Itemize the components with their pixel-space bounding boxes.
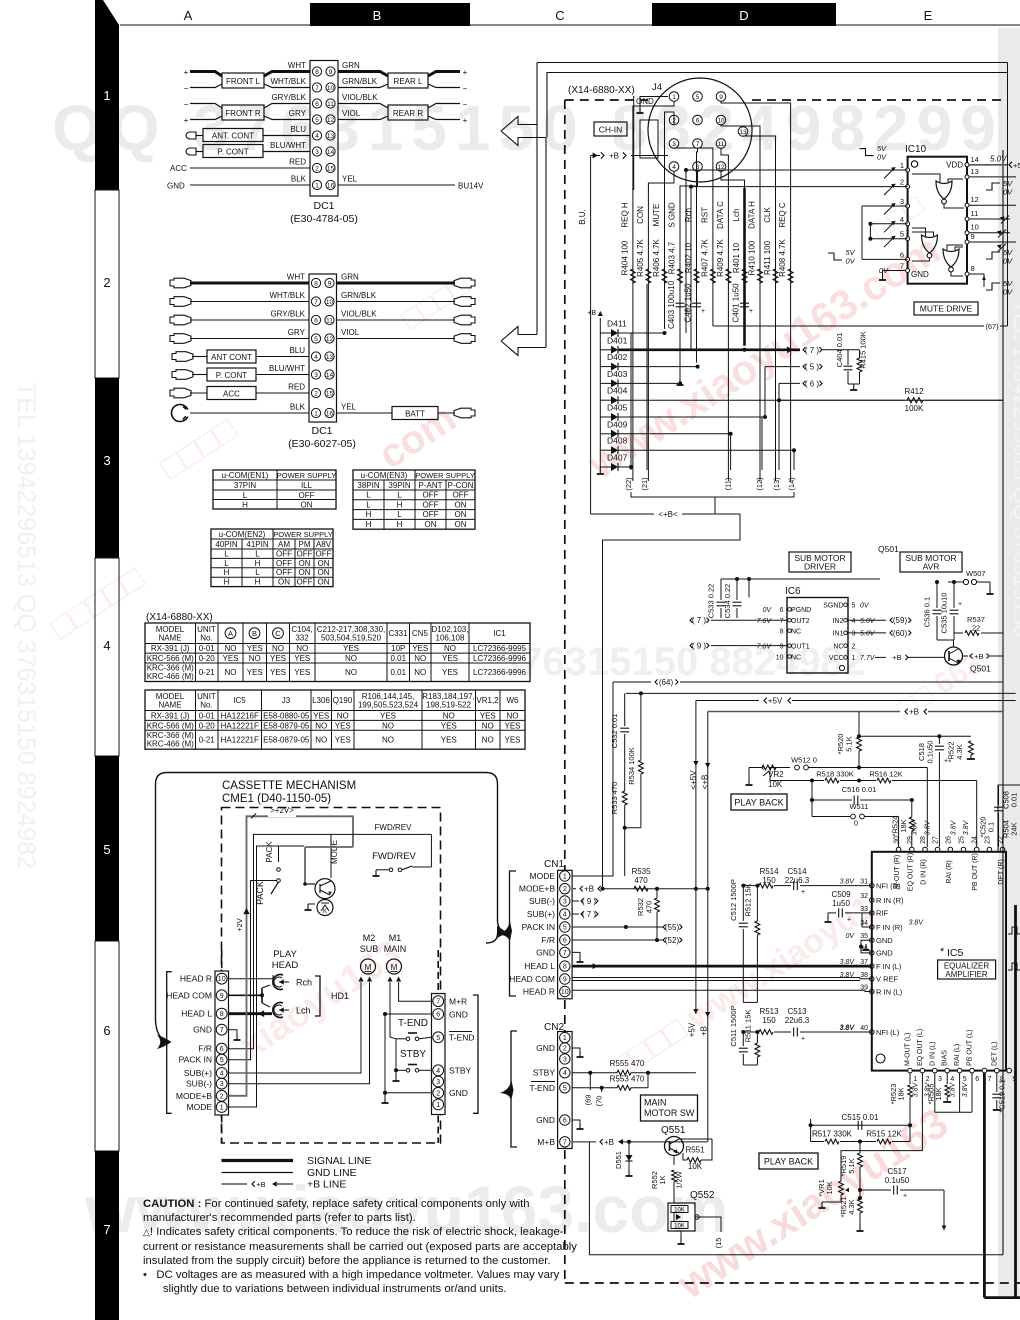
svg-text:32: 32	[860, 893, 868, 900]
connector DC1a pin 8	[312, 67, 321, 76]
svg-text:DET (L): DET (L)	[991, 1042, 998, 1066]
IC5 pin 40 NFI (L)	[870, 1030, 875, 1035]
waveform at IC10 pin6	[828, 253, 842, 260]
svg-text:5: 5	[696, 94, 700, 101]
svg-text:HEAD COM: HEAD COM	[509, 974, 555, 984]
svg-text:5: 5	[963, 1076, 967, 1083]
svg-text:38: 38	[860, 972, 868, 979]
svg-text:0V: 0V	[1003, 188, 1013, 197]
IC5 pin 8 bottom	[995, 1068, 1000, 1073]
svg-text:R511 15K: R511 15K	[744, 1010, 753, 1043]
svg-text:+: +	[847, 917, 851, 924]
connector CME2 cassette side	[432, 994, 446, 1115]
wire NFI (R)	[743, 885, 758, 887]
terminal lug right row 3 (DC1b)	[454, 315, 475, 325]
box PLAY BACK upper	[731, 794, 787, 810]
svg-text:3: 3	[938, 1076, 942, 1083]
svg-text:5: 5	[900, 230, 904, 239]
switch STBY	[406, 1069, 410, 1073]
svg-text:Lch: Lch	[732, 209, 741, 222]
label +5 right edge	[1009, 162, 1012, 168]
gate U3 in IC10	[943, 249, 959, 267]
wire IC10 pin4 left	[870, 223, 907, 225]
watermark gray strip right edge	[998, 28, 1020, 1296]
header zone letter B on black block	[310, 3, 470, 26]
svg-text:25: 25	[959, 836, 966, 844]
box P. CONT b	[192, 374, 207, 376]
ground STBY common	[395, 1039, 397, 1075]
terminal (6) row	[779, 382, 800, 384]
svg-text:STBY: STBY	[533, 1068, 556, 1078]
wire DATA C column	[727, 188, 729, 481]
svg-text:IC6: IC6	[785, 586, 801, 597]
svg-text:22: 22	[998, 836, 1005, 844]
svg-text:PACK IN: PACK IN	[522, 922, 555, 932]
svg-text:R IN (R): R IN (R)	[876, 896, 904, 905]
box BATT	[392, 407, 438, 420]
connector DC1b pin 11	[325, 315, 334, 324]
svg-text:R407 4.7K: R407 4.7K	[700, 238, 709, 276]
svg-text:12: 12	[971, 195, 979, 204]
wire rail +B	[708, 711, 1003, 713]
svg-text:W512 0: W512 0	[791, 756, 817, 765]
main frame border	[547, 73, 1008, 138]
svg-text:5.1K: 5.1K	[847, 1158, 856, 1173]
IC5 pin 38 V REF	[870, 977, 875, 982]
svg-text:6: 6	[975, 1076, 979, 1083]
connector DC1b pin 3	[311, 370, 320, 379]
svg-text:8: 8	[971, 264, 975, 273]
svg-text:D IN (L): D IN (L)	[929, 1042, 936, 1067]
connector DC1a pin 13	[326, 131, 335, 140]
svg-text:R408 4.7K: R408 4.7K	[778, 238, 787, 276]
wire CON column	[647, 188, 649, 481]
svg-text:+: +	[701, 308, 705, 315]
svg-text:10: 10	[776, 654, 784, 661]
IC5 inner circle	[876, 1054, 885, 1063]
resistor R401	[742, 269, 747, 283]
svg-text:34: 34	[860, 920, 868, 927]
connector DC1a pin 9	[326, 67, 335, 76]
svg-text:9: 9	[780, 643, 784, 650]
svg-text:(12): (12)	[755, 477, 764, 491]
svg-text:4: 4	[900, 215, 904, 224]
svg-text:EQ OUT (R): EQ OUT (R)	[907, 853, 914, 891]
diode ladder left rail +B	[599, 318, 601, 468]
resistor R403	[678, 269, 683, 283]
wire MODE up	[229, 846, 279, 1107]
IC5 pin 31 NFI (R)	[870, 883, 875, 888]
connector CN1 pin 6	[560, 935, 570, 945]
wire F/R up	[229, 834, 332, 1048]
svg-text:EQ OUT (L): EQ OUT (L)	[917, 1029, 924, 1066]
wire MODE+B +B arrow	[572, 888, 708, 890]
wire WHT/BLK (FRONT L -)	[190, 84, 222, 88]
header zone letter D on black block	[652, 3, 836, 26]
svg-text:14: 14	[971, 155, 979, 164]
svg-text:DATA C: DATA C	[716, 201, 725, 229]
sidebar row 1	[95, 40, 119, 190]
wire GRN/BLK (DC1b)	[337, 301, 456, 303]
svg-text:R411 100: R411 100	[763, 240, 772, 275]
connector CN1 pin 2	[560, 884, 570, 894]
resistor R412 100K	[779, 399, 905, 401]
connector CN2 pin 2	[560, 1043, 570, 1053]
svg-text:31: 31	[860, 879, 868, 886]
IC5 pin 36 GND	[870, 951, 875, 956]
connector DC1a pin 5	[312, 115, 321, 124]
wire IC5 pin1 R523	[909, 1073, 911, 1084]
connector DC1b pin 6	[311, 315, 320, 324]
svg-text:+B: +B	[909, 708, 919, 717]
connector CME1 pin 7	[216, 1024, 227, 1035]
connector CME1 pin 9	[216, 990, 227, 1001]
svg-text:R401 10: R401 10	[732, 242, 741, 273]
svg-text:SUB(-): SUB(-)	[529, 896, 555, 906]
connector CN2 pin 4	[560, 1068, 570, 1078]
cable bracket to CN1	[510, 871, 517, 996]
speaker box REAR R	[388, 105, 428, 120]
wire YEL to BATT	[337, 412, 393, 414]
svg-text:M+B: M+B	[537, 1137, 555, 1147]
connector J4 pin 5	[693, 92, 703, 102]
svg-text:3.8V: 3.8V	[963, 819, 970, 835]
svg-text:0V: 0V	[846, 257, 856, 266]
resistor R410	[758, 269, 763, 283]
terminal (59)	[848, 619, 886, 621]
svg-text:SUB(+): SUB(+)	[527, 909, 555, 919]
wire S GND column	[679, 188, 681, 380]
connector CN1 pin 4	[560, 909, 570, 919]
svg-text:+5: +5	[1013, 161, 1020, 170]
svg-text:R553 470: R553 470	[610, 1075, 645, 1084]
bus under terminals	[631, 492, 794, 497]
svg-text:NC: NC	[791, 654, 801, 661]
svg-text:NFI (L): NFI (L)	[876, 1028, 900, 1037]
svg-text:D403: D403	[607, 369, 628, 379]
svg-text:R551: R551	[685, 1146, 705, 1155]
svg-text:3: 3	[563, 1056, 567, 1063]
resistor R411	[773, 269, 778, 283]
svg-text:5: 5	[852, 603, 856, 610]
capacitor C401 1u50	[740, 302, 749, 304]
svg-text:(64): (64)	[659, 678, 674, 687]
svg-text:3.8V: 3.8V	[925, 819, 932, 835]
svg-text:D551: D551	[614, 1151, 623, 1169]
svg-text:10: 10	[971, 223, 979, 232]
wire IC5 pin8 C519	[996, 1073, 998, 1092]
svg-text:R405 4.7K: R405 4.7K	[636, 238, 645, 276]
pointer arrow to DC1b	[501, 327, 546, 356]
svg-text:1: 1	[852, 655, 856, 662]
svg-text:OUT1: OUT1	[791, 643, 810, 650]
connector DC1a pin 14	[326, 147, 335, 156]
IC5 pin 2 bottom	[920, 1068, 925, 1073]
wire to IC5 pin28	[926, 768, 928, 848]
box MUTE DRIVE	[914, 302, 978, 315]
svg-text:Q501: Q501	[878, 544, 899, 554]
wire MODE+B +2V	[229, 916, 247, 1096]
connector DC1a pin 6	[312, 99, 321, 108]
sidebar torn black corner	[95, 0, 119, 55]
wire C518 R522 feed	[859, 735, 971, 737]
svg-text:7: 7	[563, 1139, 567, 1146]
IC5 pin 1 bottom	[908, 1068, 913, 1073]
wire R IN (L)	[572, 989, 865, 991]
connector DC1a pin 16	[326, 180, 335, 189]
wire to IC5 pin24	[976, 781, 978, 848]
connector CN1 pin 7	[560, 947, 570, 957]
svg-text:HEAD L: HEAD L	[524, 961, 555, 971]
connector CME1 pin 8	[216, 1008, 227, 1019]
svg-text:R415 100K: R415 100K	[859, 331, 868, 369]
svg-text:C516 0.01: C516 0.01	[842, 785, 877, 794]
connector J4 pin 13	[738, 127, 748, 137]
connector CN1 pin 9	[560, 974, 570, 984]
wire IC10 pin8 out	[969, 274, 984, 287]
wire IC5 pin6 down	[971, 1073, 973, 1112]
wire Q501 +B right	[963, 655, 969, 657]
connector DC1b pin 5	[311, 334, 320, 343]
svg-text:6: 6	[563, 938, 567, 945]
sidebar row 6	[95, 941, 119, 1151]
connector CN1 pin 1	[560, 871, 570, 881]
svg-text:R409 4.7K: R409 4.7K	[716, 238, 725, 276]
capacitor C536 0.1	[936, 582, 938, 608]
svg-text:2: 2	[563, 1046, 567, 1053]
svg-text:D404: D404	[607, 386, 628, 396]
svg-text:28: 28	[920, 836, 927, 844]
connector CME2 pin 2	[433, 1087, 444, 1098]
svg-text:GND: GND	[636, 97, 654, 106]
wire MODE to (64)	[572, 682, 613, 876]
svg-text:*: *	[940, 946, 945, 958]
svg-text:C403 100u10: C403 100u10	[667, 280, 676, 329]
terminal lug right row 1 (DC1b)	[454, 278, 475, 288]
svg-text:22u6.3: 22u6.3	[785, 1016, 810, 1025]
connector CME1 pin 1	[216, 1102, 227, 1113]
wire VIOL (DC1b)	[337, 338, 456, 340]
svg-text:D405: D405	[607, 403, 628, 413]
svg-text:(59): (59)	[893, 616, 908, 625]
svg-text:R412: R412	[904, 387, 924, 396]
wire HEAD COM	[229, 994, 263, 996]
wire YEL to BU14V	[338, 184, 455, 186]
wire +B drop	[707, 712, 709, 1142]
svg-text:(21): (21)	[640, 477, 649, 491]
wire rail (64)	[613, 681, 651, 683]
svg-text:4: 4	[563, 912, 567, 919]
ground CN2 pin6	[572, 1120, 580, 1124]
svg-text:3.8V: 3.8V	[840, 879, 856, 886]
table model options A	[145, 623, 530, 682]
connector CME2 pin 7	[433, 996, 444, 1007]
svg-text:GND: GND	[536, 1115, 555, 1125]
connector DC1b pin 14	[325, 370, 334, 379]
box MAIN MOTOR SW	[641, 1095, 698, 1121]
connector DC1b pin 7	[311, 297, 320, 306]
junction NFI R network	[743, 1001, 757, 1003]
svg-text:RAI (R): RAI (R)	[946, 860, 953, 883]
svg-text:5: 5	[563, 925, 567, 932]
svg-text:10K: 10K	[768, 780, 783, 789]
svg-text:MUTE DRIVE: MUTE DRIVE	[920, 304, 973, 314]
svg-text:(15: (15	[714, 1238, 723, 1249]
ground IC10 pin7	[883, 271, 906, 277]
svg-text:(14): (14)	[787, 477, 796, 491]
connector DC1b pin 10	[325, 297, 334, 306]
svg-text:(X14-6880-XX): (X14-6880-XX)	[568, 85, 635, 96]
svg-text:(60): (60)	[893, 629, 908, 638]
svg-text:18K: 18K	[897, 1087, 906, 1100]
svg-text:7: 7	[696, 141, 700, 148]
connector DC1b pin 8	[311, 278, 320, 287]
arrow channel rails	[536, 125, 538, 335]
svg-text:GND: GND	[536, 1043, 555, 1053]
IC5 pin 3 bottom	[933, 1068, 938, 1073]
svg-text:10K: 10K	[674, 1224, 685, 1230]
ground S GND column	[679, 379, 681, 385]
svg-text:6: 6	[900, 250, 904, 259]
svg-text:3: 3	[852, 631, 856, 638]
sidebar row 5	[95, 756, 119, 941]
wire IC5 pins3-6 join	[935, 1111, 972, 1113]
photo LED (cassette)	[317, 900, 333, 916]
svg-text:9: 9	[719, 94, 723, 101]
svg-text:W507: W507	[966, 569, 986, 578]
connector CN1 pin 5	[560, 922, 570, 932]
wire Q551 collector	[673, 1156, 675, 1166]
connector J4 pin 2	[669, 115, 679, 125]
svg-text:3.8V: 3.8V	[840, 1025, 856, 1032]
svg-text:R517 330K: R517 330K	[812, 1130, 853, 1139]
wire IC5 pin4 R505 ground	[946, 1073, 948, 1084]
svg-text:OUT2: OUT2	[791, 618, 810, 625]
connector DC1b pin 13	[325, 352, 334, 361]
svg-text:0V: 0V	[762, 607, 772, 614]
connector DC1a pin 12	[326, 115, 335, 124]
svg-text:Q501: Q501	[970, 664, 991, 674]
svg-text:C514: C514	[787, 867, 807, 876]
svg-text:10: 10	[717, 117, 725, 124]
wire DATA H column	[759, 188, 761, 481]
wire IC5 pin3 down	[934, 1073, 936, 1112]
svg-text:C517: C517	[887, 1167, 907, 1176]
svg-text:GND: GND	[536, 947, 555, 957]
svg-text:3: 3	[563, 899, 567, 906]
svg-text:D409: D409	[607, 419, 628, 429]
svg-text:(13): (13)	[772, 477, 781, 491]
svg-text:C536 0.1: C536 0.1	[923, 597, 932, 627]
table u-COM(EN2)	[211, 529, 333, 587]
svg-text:2: 2	[852, 643, 856, 650]
svg-text:1: 1	[900, 161, 904, 170]
svg-text:J4: J4	[652, 82, 662, 93]
svg-text:D402: D402	[607, 352, 628, 362]
sidebar row 4	[95, 558, 119, 756]
svg-text:0: 0	[854, 819, 858, 828]
svg-text:IC5: IC5	[947, 947, 964, 959]
wire CLK column	[775, 188, 777, 481]
capacitor C534 0.22	[736, 579, 738, 600]
terminal (69)	[589, 1073, 591, 1090]
wire Rch column	[696, 188, 698, 363]
svg-text:6: 6	[563, 1118, 567, 1125]
svg-text:3: 3	[900, 197, 904, 206]
connector CME2 pin 3	[433, 1076, 444, 1087]
IC5 pin 34 F IN (R)	[870, 925, 875, 930]
svg-text:( 9 ): ( 9 )	[692, 641, 707, 650]
connector J4 pin 1	[669, 92, 679, 102]
svg-text:10K: 10K	[825, 1181, 834, 1194]
svg-text:+: +	[903, 1193, 907, 1200]
svg-text:CON: CON	[636, 206, 645, 224]
wire IC10 pin2 left	[691, 186, 908, 188]
connector CME2 pin 1	[433, 1099, 444, 1110]
ring terminal GND (DC1b)	[172, 405, 189, 422]
resistor R409	[726, 269, 731, 283]
svg-text:NC: NC	[791, 628, 801, 635]
svg-text:3.8V: 3.8V	[912, 819, 919, 835]
svg-text:7: 7	[563, 950, 567, 957]
wire rail mid	[626, 692, 1016, 694]
connector CME2 pin 6	[433, 1009, 444, 1020]
connector CME1 pin 4	[216, 1068, 227, 1079]
connector CME1 pin 2	[216, 1090, 227, 1101]
svg-text:1u50: 1u50	[832, 899, 850, 908]
wire GRY (DC1b)	[190, 338, 309, 340]
svg-text:18K: 18K	[899, 819, 908, 832]
svg-text:3: 3	[672, 141, 676, 148]
cassette notch point	[497, 926, 508, 938]
speaker box FRONT L	[222, 73, 264, 88]
svg-text:C532 0.01: C532 0.01	[610, 714, 619, 749]
box J4 inner	[640, 120, 658, 158]
terminal (9) CN1	[572, 900, 579, 902]
svg-text:1: 1	[563, 1035, 567, 1042]
wire MODE to photo sensor	[330, 834, 332, 878]
capacitor C403 100u10	[676, 302, 685, 304]
connector CN2 pin 3	[560, 1054, 570, 1064]
wire bottom right corner	[984, 1296, 1020, 1299]
svg-text:C533 0.22: C533 0.22	[707, 584, 716, 619]
svg-text:3.8V: 3.8V	[913, 1081, 920, 1097]
svg-text:Rch: Rch	[684, 208, 693, 222]
svg-text:1: 1	[563, 874, 567, 881]
svg-text:2: 2	[563, 886, 567, 893]
svg-text:PB OUT (L): PB OUT (L)	[967, 1030, 974, 1066]
ground C404 R415	[848, 383, 860, 385]
box SUB MOTOR DRIVER	[789, 552, 851, 572]
box ACC	[190, 392, 207, 394]
svg-text:REQ H: REQ H	[620, 202, 629, 228]
svg-text:5.0V: 5.0V	[990, 155, 1007, 164]
capacitor C533 0.22	[720, 579, 722, 600]
junction C532 R534	[625, 827, 641, 829]
box right edge component	[998, 785, 1020, 851]
svg-text:NFI (R): NFI (R)	[876, 881, 901, 890]
svg-text:0V: 0V	[860, 603, 870, 610]
svg-text:0V: 0V	[1003, 288, 1013, 297]
connector DC1b pin 12	[325, 334, 334, 343]
wire WHT/BLK (DC1b)	[190, 301, 309, 303]
svg-text:(22): (22)	[624, 477, 633, 491]
svg-text:( 6 ): ( 6 )	[805, 379, 820, 388]
svg-text:CLK: CLK	[763, 207, 772, 223]
svg-text:24: 24	[972, 836, 979, 844]
wire PACK IN up	[229, 881, 277, 1060]
wire M1 left lead	[389, 982, 391, 1037]
